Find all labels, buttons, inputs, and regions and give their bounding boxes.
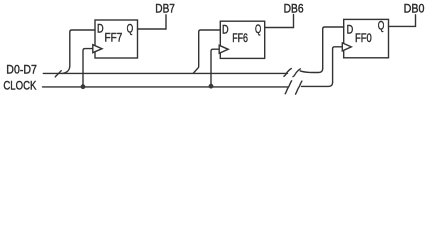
break marks on bus D0-D7 bbox=[284, 69, 301, 77]
wire FF6 D input (bus tap, vertical, into D pin) bbox=[193, 30, 220, 73]
svg-text:CLOCK: CLOCK bbox=[3, 78, 36, 92]
svg-text:D0-D7: D0-D7 bbox=[6, 63, 37, 77]
junction dot FF6 clock tap bbox=[209, 84, 214, 89]
break marks on CLOCK line bbox=[285, 81, 302, 94]
flip-flop FF6 box bbox=[220, 21, 264, 58]
flip-flop FF0 box bbox=[344, 19, 389, 57]
CLOCK right stub after break bbox=[302, 82, 333, 86]
flip-flop FF7 box bbox=[95, 20, 138, 58]
wire FF0 clock (clock line end corner, vertical, into clock pin) bbox=[333, 47, 342, 83]
svg-text:D: D bbox=[97, 22, 104, 36]
svg-text:FF6: FF6 bbox=[232, 31, 248, 45]
wire FF7 Q output to DB7 bbox=[138, 15, 167, 29]
clock input arrow FF0 bbox=[342, 43, 351, 51]
svg-text:Q: Q bbox=[378, 19, 385, 33]
svg-text:Q: Q bbox=[255, 22, 261, 36]
clock input arrow FF7 bbox=[93, 45, 102, 53]
wire FF6 clock (from junction up across bus and into clock pin) bbox=[211, 49, 219, 86]
svg-text:DB7: DB7 bbox=[155, 2, 175, 16]
junction dot FF7 clock tap bbox=[81, 84, 86, 89]
wire FF7 D input (bus tap, vertical, into D pin) bbox=[63, 30, 96, 73]
svg-text:DB6: DB6 bbox=[284, 1, 304, 15]
wire FF6 Q output to DB6 bbox=[265, 15, 294, 28]
bus D0-D7 horizontal line bbox=[43, 72, 287, 74]
clock input arrow FF6 bbox=[219, 45, 228, 53]
svg-text:Q: Q bbox=[127, 21, 134, 35]
wire FF0 Q output to DB0 bbox=[389, 15, 416, 27]
svg-text:FF0: FF0 bbox=[355, 31, 372, 45]
svg-text:D: D bbox=[222, 23, 229, 37]
CLOCK horizontal line bbox=[43, 86, 288, 88]
svg-text:FF7: FF7 bbox=[105, 31, 123, 45]
wire FF0 D input (bus end corner, vertical, into D pin) bbox=[323, 27, 344, 69]
svg-text:DB0: DB0 bbox=[404, 1, 425, 15]
bus width slash bbox=[55, 71, 61, 77]
wire FF7 clock (from junction up and into clock pin) bbox=[83, 49, 93, 87]
svg-text:D: D bbox=[347, 22, 354, 36]
bus D0-D7 right stub after break bbox=[300, 69, 323, 73]
